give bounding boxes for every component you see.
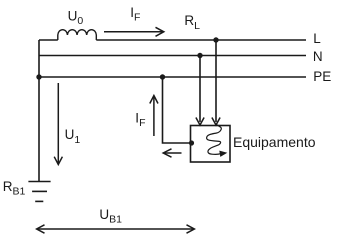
svg-text:IF: IF [130,5,140,24]
svg-text:Equipamento: Equipamento [233,134,316,150]
arrow U1 voltage (down) [54,83,62,165]
fault current squiggle arrowhead [219,151,227,157]
svg-text:PE: PE [313,69,331,84]
arrow IF up (fault current return) [150,96,158,137]
wire N bus [39,55,306,57]
wire branch from N down to equipment [199,56,201,123]
svg-text:RL: RL [184,13,200,32]
arrow pointing left below equipment wire [163,149,181,157]
svg-text:UB1: UB1 [99,207,122,226]
wire PE bus [39,76,306,78]
wire L bus with inductor step [39,39,58,41]
inductor U0 [58,30,97,40]
fault current squiggle inside equipment box [207,125,222,155]
node junction dot on PE line at equipment branch [160,74,165,79]
arrow UB1 double-headed [37,225,195,233]
wire branch from PE to equipment left side [163,77,191,143]
svg-text:U1: U1 [65,127,81,146]
svg-text:RB1: RB1 [3,179,26,198]
node junction dot on PE at left vertical [36,74,41,79]
equipment box (Equipamento) U1 [191,126,231,163]
arrowhead on N branch into equipment [196,118,204,126]
svg-text:L: L [313,31,321,46]
ground electrode RB1 symbol [28,182,50,202]
node junction dot on L line [213,37,218,42]
wire branch from L down to equipment [215,41,217,123]
node junction dot on N line [197,53,202,58]
node junction dot at equipment box left edge [189,140,194,145]
arrow IF top (current direction) [104,27,164,36]
wire left vertical conductor to earth [38,40,40,182]
svg-text:U0: U0 [68,8,84,27]
arrowhead on L branch into equipment [212,118,220,126]
svg-text:IF: IF [135,110,145,129]
svg-text:N: N [313,49,323,64]
wire L bus right segment [96,39,306,41]
